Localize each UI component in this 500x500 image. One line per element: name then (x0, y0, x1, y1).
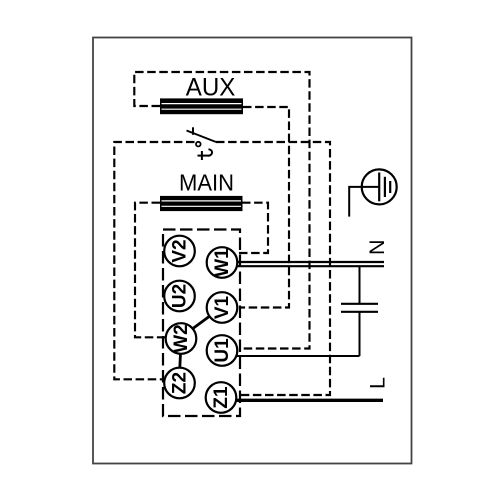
svg-text:W1: W1 (212, 248, 233, 277)
svg-text:MAIN: MAIN (179, 169, 234, 195)
svg-text:V2: V2 (170, 239, 191, 262)
svg-text:Z2: Z2 (170, 372, 191, 394)
svg-text:U2: U2 (170, 284, 191, 308)
svg-text:W2: W2 (171, 324, 192, 353)
svg-text:U1: U1 (212, 338, 233, 363)
svg-text:L: L (365, 377, 389, 389)
svg-text:AUX: AUX (186, 74, 236, 102)
svg-text:N: N (365, 239, 389, 255)
svg-text:Z1: Z1 (211, 386, 232, 409)
svg-text:V1: V1 (212, 295, 233, 319)
